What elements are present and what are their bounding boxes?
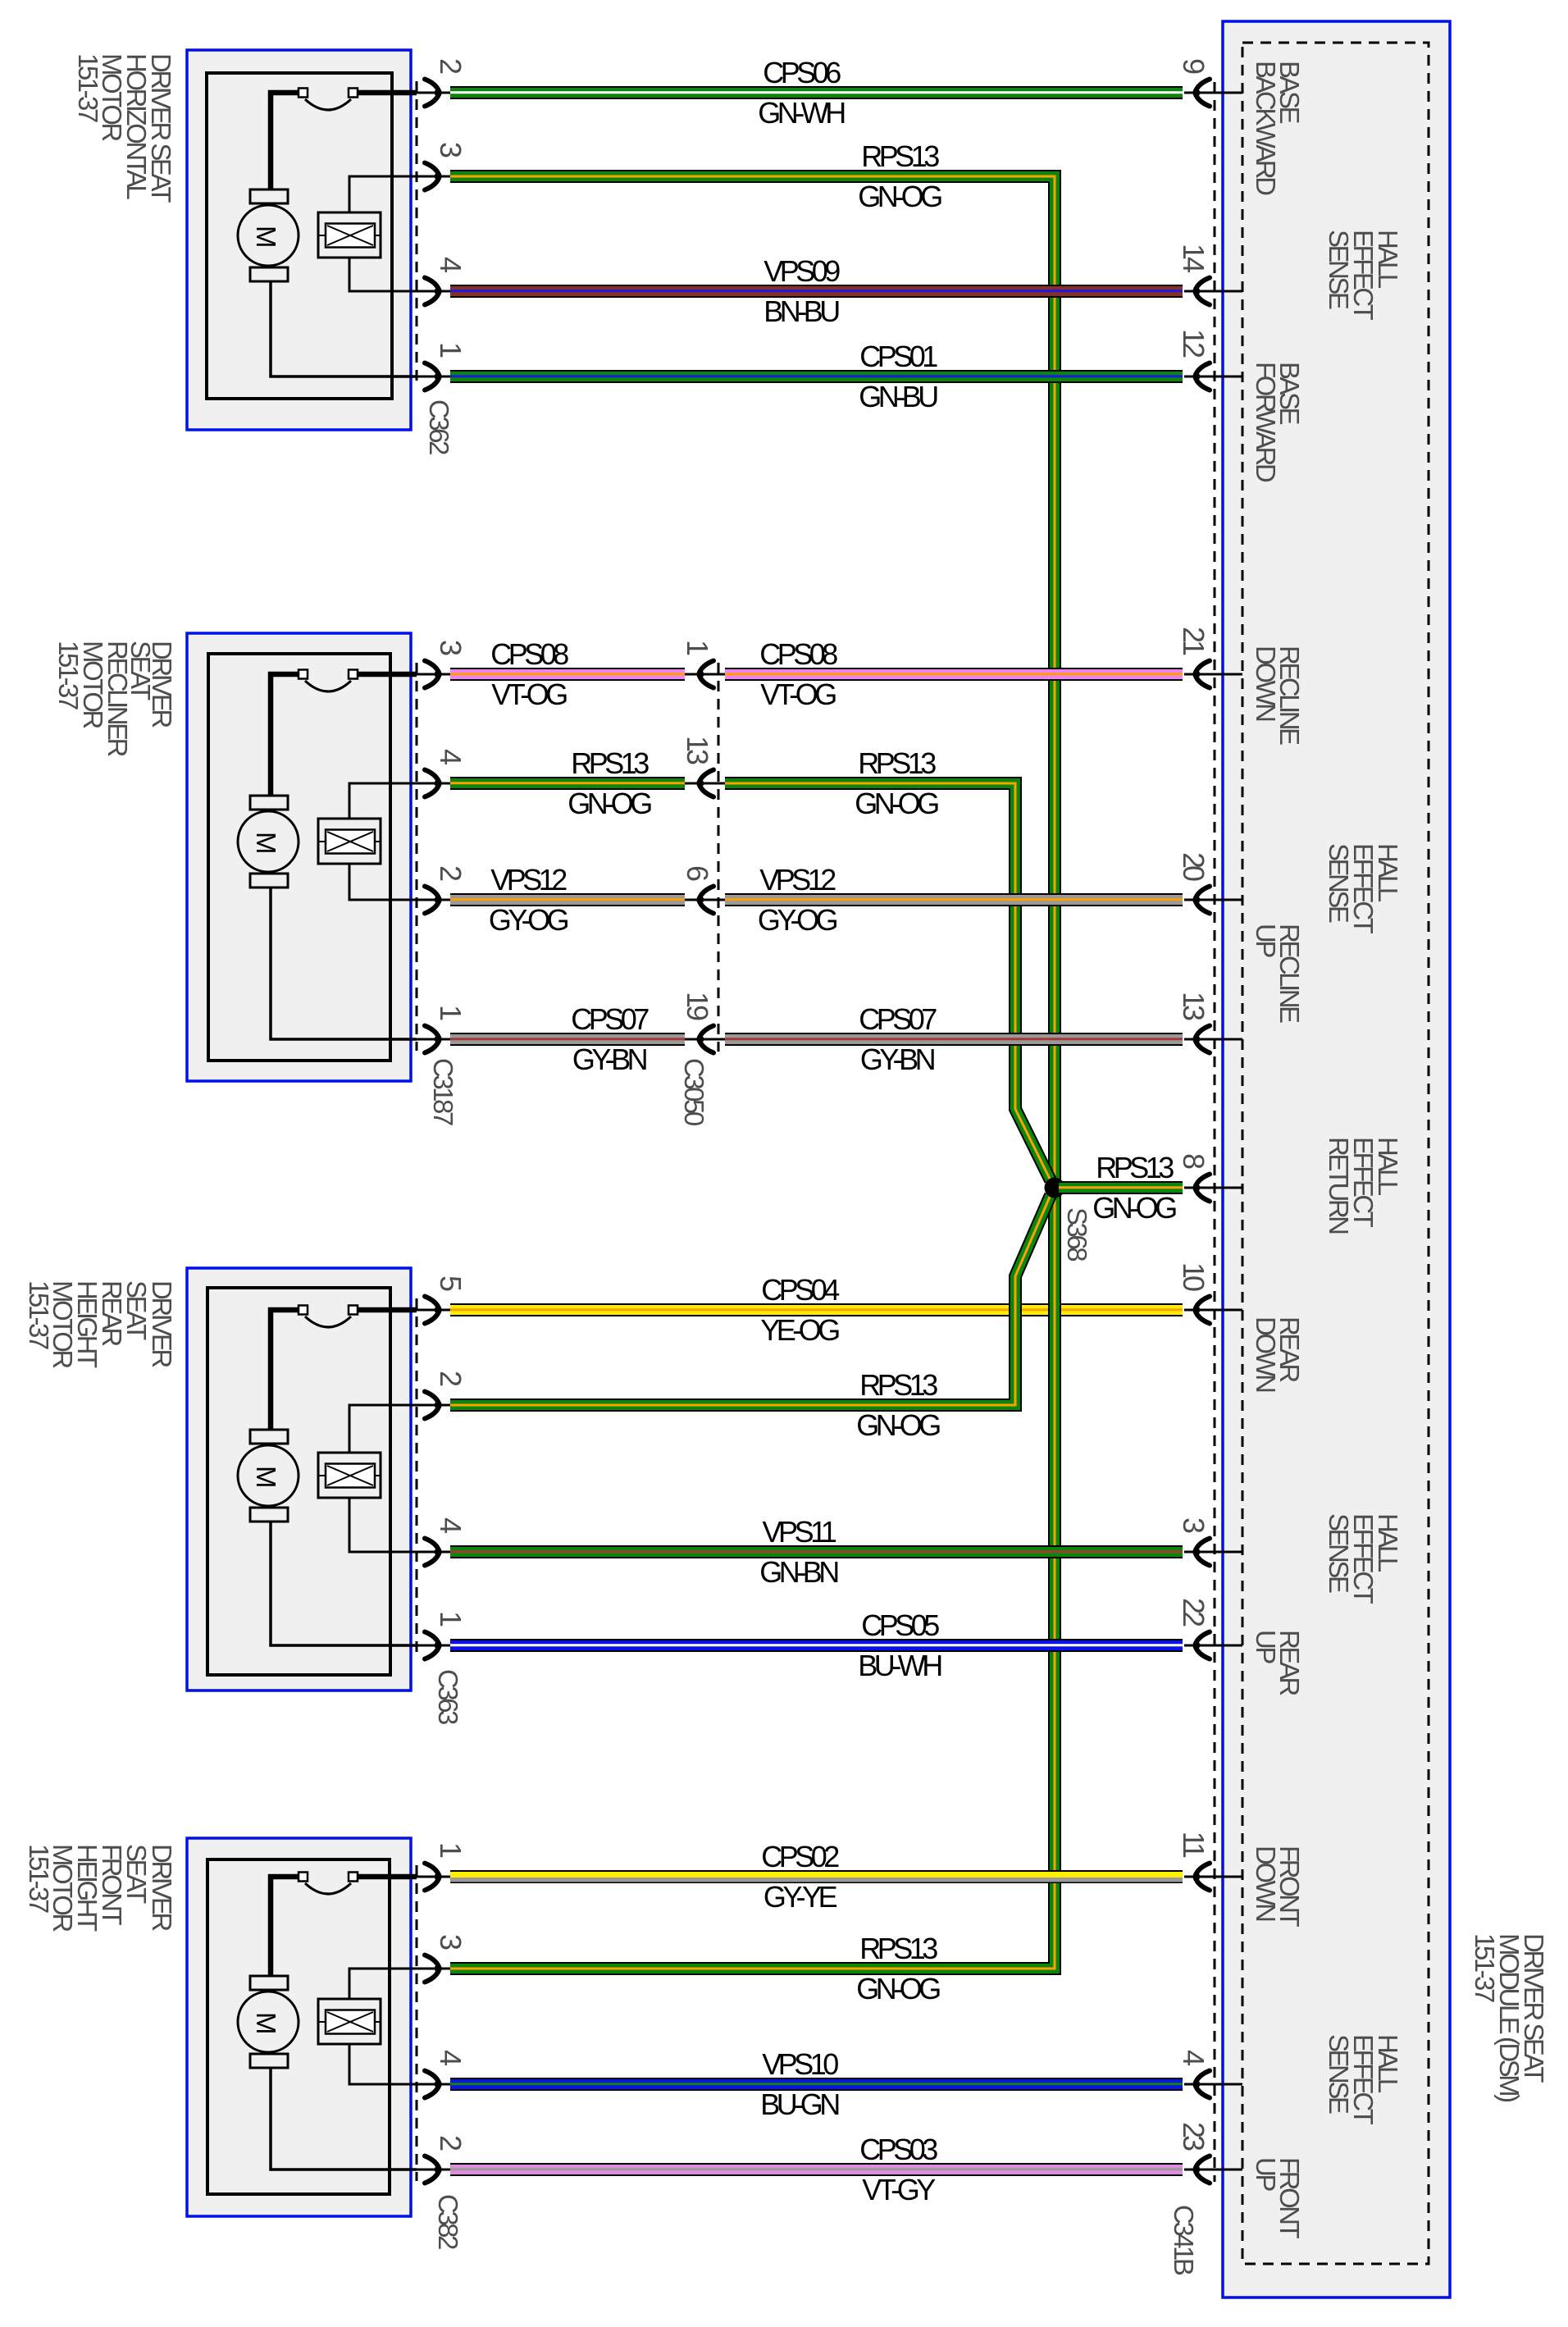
DSM pin 13 arrow: [1194, 1026, 1210, 1053]
pin 2 arrow: [425, 80, 441, 107]
motor inner outline: [207, 1859, 390, 2194]
svg-text:GN-BN: GN-BN: [759, 1555, 838, 1589]
svg-text:GN-WH: GN-WH: [758, 96, 845, 130]
wire label CPS07 GY-BN at y1267: [859, 1002, 937, 1076]
svg-text:GY-OG: GY-OG: [489, 903, 568, 937]
svg-text:GN-OG: GN-OG: [858, 180, 941, 213]
pin 2 arrow: [425, 2156, 441, 2183]
pin 1 stub: [413, 1645, 450, 1647]
svg-text:RPS13: RPS13: [1096, 1151, 1174, 1184]
pin 3 stub: [413, 673, 450, 676]
svg-text:RPS13: RPS13: [571, 746, 649, 780]
DSM pin 12 arrow: [1194, 363, 1210, 390]
DSM pin 11 arrow: [1194, 1864, 1210, 1891]
wire CPS08 VT-OG right: [725, 668, 1183, 681]
wire sensor top pin: [349, 176, 417, 212]
svg-text:FORWARD: FORWARD: [1251, 362, 1281, 482]
DSM pin 3 arrow: [1194, 1539, 1210, 1566]
svg-text:RPS13: RPS13: [858, 746, 936, 780]
splice S368: [1045, 1178, 1065, 1198]
wire label CPS08 VT-OG at y822: [759, 637, 837, 711]
svg-text:13: 13: [681, 736, 714, 764]
switch arc: [305, 99, 351, 110]
wire VPS10 BU-GN: [450, 2078, 1183, 2091]
svg-text:CPS08: CPS08: [490, 637, 568, 671]
svg-text:CPS08: CPS08: [759, 637, 837, 671]
wire label VPS11 GN-BN at y1892: [759, 1515, 838, 1589]
svg-text:151-37: 151-37: [73, 53, 103, 122]
svg-text:CPS03: CPS03: [859, 2133, 937, 2166]
pin 4 stub: [413, 290, 450, 293]
wire RPS13 GN-OG main run: [450, 176, 1055, 1969]
wire label RPS13 GN-OG at y955: [567, 746, 651, 820]
connector label C363: [433, 1669, 463, 1724]
C3050 pin 6 stub: [685, 899, 725, 901]
wire sensor bottom pin: [349, 864, 417, 900]
DSM pin label RECLINE UP: [1251, 924, 1305, 1023]
pin 3 arrow: [425, 163, 441, 190]
svg-text:151-37: 151-37: [24, 1844, 54, 1913]
DSM pin 8 arrow: [1194, 1175, 1210, 1202]
svg-text:VPS11: VPS11: [763, 1515, 836, 1549]
svg-text:SENSE: SENSE: [1324, 2034, 1354, 2114]
connector line C341B: [1214, 82, 1216, 2182]
DSM pin label HALL EFFECT SENSE: [1324, 2034, 1403, 2125]
wire label RPS13 GN-OG at y215: [858, 139, 941, 213]
DSM pin 23 arrow: [1194, 2156, 1210, 2183]
svg-text:GN-OG: GN-OG: [855, 787, 938, 820]
pin 2 stub: [413, 2169, 450, 2171]
svg-text:BU-GN: BU-GN: [760, 2087, 839, 2121]
wire sensor bottom pin: [349, 2044, 417, 2084]
connector label C382: [433, 2194, 463, 2249]
wire VPS12 GY-OG right: [725, 893, 1183, 906]
svg-text:DOWN: DOWN: [1251, 1316, 1281, 1392]
DSM pin 21 stub: [1184, 673, 1242, 676]
DSM pin label HALL EFFECT SENSE: [1324, 1513, 1403, 1604]
wire label CPS04 YE-OG at y1597: [760, 1273, 839, 1347]
svg-text:SENSE: SENSE: [1324, 1513, 1354, 1593]
pin 4 arrow: [425, 278, 441, 305]
wire sensor bottom pin: [349, 1498, 417, 1552]
C3050 pin 19 stub: [685, 1038, 725, 1041]
switch contact wire: [271, 1877, 417, 1976]
wire label VPS12 GY-OG at y1097: [758, 863, 837, 937]
svg-text:SENSE: SENSE: [1324, 843, 1354, 923]
C3050 pin 13 stub: [685, 783, 725, 785]
svg-text:22: 22: [1177, 1598, 1210, 1627]
connector label C362: [424, 399, 454, 454]
svg-text:GY-BN: GY-BN: [572, 1043, 647, 1076]
pin 2 arrow: [425, 887, 441, 914]
wire label RPS13 GN-OG at y1448: [1092, 1151, 1176, 1225]
motor M symbol: [238, 1976, 299, 2068]
svg-text:20: 20: [1177, 852, 1210, 881]
DSM pin label RECLINE DOWN: [1251, 646, 1305, 745]
wire label CPS06 GN-WH at y113: [758, 56, 845, 130]
pin 4 stub: [413, 783, 450, 785]
DSM pin 10 stub: [1184, 1309, 1242, 1312]
pin 4 stub: [413, 2083, 450, 2086]
svg-text:M: M: [251, 2012, 281, 2033]
connector label C3187: [428, 1058, 458, 1125]
wire label CPS07 GY-BN at y1267: [571, 1002, 649, 1076]
DSM pin 22 stub: [1184, 1645, 1242, 1647]
pin 2 stub: [413, 899, 450, 901]
connector label C3050: [679, 1058, 709, 1126]
connector line C382: [416, 1865, 418, 2181]
pin 4 stub: [413, 1551, 450, 1554]
DSM pin 20 stub: [1184, 899, 1242, 901]
svg-text:GN-OG: GN-OG: [856, 1972, 940, 2005]
motor inner outline: [208, 654, 390, 1061]
pin 5 stub: [413, 1309, 450, 1312]
svg-text:UP: UP: [1251, 2157, 1281, 2191]
DSM pin label BASE FORWARD: [1251, 362, 1305, 482]
wire CPS07 GY-BN left: [450, 1033, 685, 1046]
wire VPS11 GN-BN: [450, 1545, 1183, 1558]
svg-text:DOWN: DOWN: [1251, 646, 1281, 721]
wire label VPS12 GY-OG at y1097: [489, 863, 568, 937]
DSM pin label BASE BACKWARD: [1251, 61, 1305, 195]
DSM pin label HALL EFFECT SENSE: [1324, 843, 1403, 934]
wire label RPS13 GN-OG at y2400: [856, 1932, 940, 2005]
svg-text:C362: C362: [424, 399, 454, 454]
svg-text:GN-OG: GN-OG: [1092, 1191, 1176, 1225]
motor inner outline: [207, 73, 392, 399]
wire RPS13 GN-OG hall return stub: [1059, 1181, 1183, 1194]
switch arc: [305, 1883, 351, 1894]
wire motor minus to pin: [271, 887, 417, 1039]
wire motor minus to pin: [271, 281, 417, 376]
svg-text:CPS04: CPS04: [761, 1273, 839, 1307]
C3050 pin 19 arrow: [698, 1026, 714, 1053]
DSM pin 22 arrow: [1194, 1632, 1210, 1659]
svg-text:YE-OG: YE-OG: [760, 1313, 839, 1347]
svg-text:VT-GY: VT-GY: [862, 2173, 936, 2206]
motor box C362: DRIVER SEAT HORIZONTAL MOTOR: [187, 50, 411, 430]
svg-text:151-37: 151-37: [24, 1280, 54, 1349]
thermal protector: [318, 212, 381, 258]
DSM pin 14 arrow: [1194, 278, 1210, 305]
svg-text:151-37: 151-37: [53, 641, 84, 710]
pin 3 stub: [413, 1968, 450, 1970]
pin 1 arrow: [425, 1864, 441, 1891]
DSM pin 11 stub: [1184, 1876, 1242, 1878]
DSM pin label REAR DOWN: [1251, 1316, 1305, 1392]
DSM pin label HALL EFFECT SENSE: [1324, 230, 1403, 321]
svg-text:VPS09: VPS09: [763, 254, 840, 288]
pin 4 arrow: [425, 2071, 441, 2098]
svg-text:GN-OG: GN-OG: [567, 787, 651, 820]
wire label CPS05 BU-WH at y2006: [858, 1608, 941, 1682]
connector line C3050: [718, 663, 720, 1052]
svg-text:14: 14: [1177, 244, 1210, 272]
DSM pin 4 arrow: [1194, 2071, 1210, 2098]
wire label VPS09 BN-BU at y355: [763, 254, 840, 328]
switch contacts: [299, 89, 358, 98]
wire label RPS13 GN-OG at y955: [855, 746, 938, 820]
pin 2 arrow: [425, 1392, 441, 1419]
svg-text:UP: UP: [1251, 1630, 1281, 1663]
DSM pin 13 stub: [1184, 1038, 1242, 1041]
DSM pin 10 arrow: [1194, 1297, 1210, 1324]
motor name label: [53, 641, 177, 757]
wire CPS07 GY-BN right: [725, 1033, 1183, 1046]
connector line C3187: [416, 663, 418, 1051]
svg-text:M: M: [251, 1466, 281, 1486]
wire VPS09 BN-BU: [450, 285, 1183, 298]
motor M symbol: [238, 189, 299, 281]
wire RPS13 GN-OG recliner branch: [725, 783, 1051, 1180]
DSM inner dashed outline: [1242, 43, 1429, 2264]
wire label CPS08 VT-OG at y822: [490, 637, 568, 711]
DSM pin 4 stub: [1184, 2083, 1242, 2086]
wire label CPS03 VT-GY at y2645: [859, 2133, 937, 2206]
wire sensor bottom pin: [349, 258, 417, 291]
svg-text:CPS06: CPS06: [763, 56, 841, 89]
svg-text:21: 21: [1177, 627, 1210, 655]
connector label C341B: [1169, 2205, 1199, 2275]
svg-text:CPS05: CPS05: [861, 1608, 939, 1642]
svg-text:GN-BU: GN-BU: [859, 380, 937, 413]
svg-text:RPS13: RPS13: [859, 1932, 937, 1965]
pin 1 arrow: [425, 1026, 441, 1053]
motor name label: [24, 1844, 177, 1932]
wire label CPS01 GN-BU at y459: [859, 340, 937, 413]
pin 1 arrow: [425, 363, 441, 390]
wire CPS08 VT-OG left: [450, 668, 685, 681]
DSM pin 12 stub: [1184, 376, 1242, 378]
pin 2 stub: [413, 1404, 450, 1407]
DSM pin 9 stub: [1184, 92, 1242, 94]
thermal protector: [318, 819, 381, 864]
wire RPS13 GN-OG rear-height branch: [450, 1195, 1051, 1405]
svg-text:BN-BU: BN-BU: [763, 294, 839, 328]
svg-text:BU-WH: BU-WH: [858, 1649, 941, 1682]
svg-text:GY-YE: GY-YE: [763, 1880, 837, 1914]
connector line C362: [416, 81, 418, 388]
motor name label: [24, 1280, 177, 1368]
DSM module box: [1223, 21, 1450, 2297]
svg-text:11: 11: [1177, 1832, 1210, 1858]
svg-text:19: 19: [681, 992, 714, 1020]
svg-text:C3187: C3187: [428, 1058, 458, 1125]
DSM pin 3 stub: [1184, 1551, 1242, 1554]
DSM module name: [1470, 1933, 1549, 2101]
pin 4 arrow: [425, 770, 441, 797]
switch contact wire: [271, 1310, 417, 1430]
svg-text:RETURN: RETURN: [1324, 1137, 1354, 1234]
thermal protector: [318, 1999, 381, 2044]
svg-text:VT-OG: VT-OG: [760, 678, 836, 711]
DSM pin 14 stub: [1184, 290, 1242, 293]
svg-text:VPS12: VPS12: [490, 863, 567, 897]
wire CPS06 GN-WH: [450, 86, 1183, 99]
pin 5 arrow: [425, 1297, 441, 1324]
switch arc: [305, 681, 351, 691]
svg-text:CPS01: CPS01: [859, 340, 937, 373]
pin 4 arrow: [425, 1539, 441, 1566]
pin 1 stub: [413, 1038, 450, 1041]
svg-text:CPS07: CPS07: [571, 1002, 649, 1036]
pin 1 arrow: [425, 1632, 441, 1659]
svg-text:CPS02: CPS02: [761, 1840, 839, 1873]
wire label RPS13 GN-OG at y1713: [856, 1368, 940, 1442]
svg-text:151-37: 151-37: [1470, 1933, 1500, 2002]
wire sensor top pin: [349, 783, 417, 819]
svg-text:RPS13: RPS13: [861, 139, 939, 173]
switch contacts: [299, 1306, 358, 1315]
thermal protector: [318, 1453, 381, 1498]
wire CPS04 YE-OG: [450, 1303, 1183, 1316]
wire RPS13 GN-OG recliner left: [450, 777, 685, 790]
motor box C382: DRIVER SEAT FRONT: [187, 1838, 411, 2216]
svg-text:M: M: [251, 832, 281, 852]
pin 3 arrow: [425, 1955, 441, 1983]
pin 1 stub: [413, 1876, 450, 1878]
pin 2 stub: [413, 92, 450, 94]
motor M symbol: [238, 1430, 299, 1522]
svg-text:CPS07: CPS07: [859, 1002, 937, 1036]
DSM pin label HALL EFFECT RETURN: [1324, 1137, 1403, 1234]
wire CPS05 BU-WH: [450, 1639, 1183, 1652]
connector line C363: [416, 1298, 418, 1657]
DSM pin 23 stub: [1184, 2169, 1242, 2171]
svg-text:12: 12: [1177, 329, 1210, 358]
svg-text:S368: S368: [1062, 1207, 1092, 1261]
wire CPS01 GN-BU: [450, 370, 1183, 383]
svg-text:GY-OG: GY-OG: [758, 903, 837, 937]
svg-text:VT-OG: VT-OG: [491, 678, 567, 711]
wire motor minus to pin: [271, 1522, 417, 1645]
svg-text:C3050: C3050: [679, 1058, 709, 1126]
svg-text:VPS12: VPS12: [759, 863, 836, 897]
wire CPS02 GY-YE: [450, 1870, 1183, 1883]
switch contact wire: [271, 93, 417, 189]
svg-text:M: M: [251, 226, 281, 246]
DSM pin 20 arrow: [1194, 887, 1210, 914]
DSM pin 8 stub: [1184, 1187, 1242, 1189]
svg-text:SENSE: SENSE: [1324, 230, 1354, 309]
wire VPS12 GY-OG left: [450, 893, 685, 906]
switch arc: [305, 1316, 351, 1327]
pin 3 stub: [413, 176, 450, 178]
wire motor minus to pin: [271, 2068, 417, 2170]
DSM pin 9 arrow: [1194, 80, 1210, 107]
DSM pin label FRONT DOWN: [1251, 1846, 1305, 1927]
DSM pin label FRONT UP: [1251, 2157, 1305, 2238]
svg-text:GN-OG: GN-OG: [856, 1408, 940, 1442]
switch contacts: [299, 1873, 358, 1882]
C3050 pin 6 arrow: [698, 887, 714, 914]
pin 1 stub: [413, 376, 450, 378]
svg-text:GY-BN: GY-BN: [860, 1043, 935, 1076]
splice label S368: [1062, 1207, 1092, 1261]
DSM pin label REAR UP: [1251, 1630, 1305, 1695]
C3050 pin 13 arrow: [698, 770, 714, 797]
motor M symbol: [238, 796, 299, 887]
DSM pin 21 arrow: [1194, 661, 1210, 688]
svg-text:BACKWARD: BACKWARD: [1251, 61, 1281, 195]
motor box C363: DRIVER SEAT REAR: [187, 1268, 411, 1690]
svg-text:C363: C363: [433, 1669, 463, 1724]
pin 3 arrow: [425, 661, 441, 688]
svg-text:DOWN: DOWN: [1251, 1846, 1281, 1921]
svg-text:13: 13: [1177, 992, 1210, 1020]
svg-text:C341B: C341B: [1169, 2205, 1199, 2275]
motor inner outline: [207, 1288, 390, 1675]
wire label CPS02 GY-YE at y2288: [761, 1840, 839, 1914]
svg-text:C382: C382: [433, 2194, 463, 2249]
wire sensor top pin: [349, 1405, 417, 1453]
svg-text:10: 10: [1177, 1262, 1210, 1291]
C3050 pin 1 arrow: [698, 661, 714, 688]
switch contacts: [299, 670, 358, 679]
wire CPS03 VT-GY: [450, 2163, 1183, 2176]
motor box C3187: DRIVER SEAT RECLINER: [187, 633, 411, 1081]
motor name label: [73, 53, 176, 203]
svg-text:RPS13: RPS13: [859, 1368, 937, 1402]
svg-text:23: 23: [1177, 2122, 1210, 2151]
switch contact wire: [271, 674, 417, 796]
svg-text:VPS10: VPS10: [762, 2047, 838, 2081]
C3050 pin 1 stub: [685, 673, 725, 676]
svg-text:UP: UP: [1251, 924, 1281, 957]
wire sensor top pin: [349, 1969, 417, 1999]
wire label VPS10 BU-GN at y2541: [760, 2047, 839, 2121]
